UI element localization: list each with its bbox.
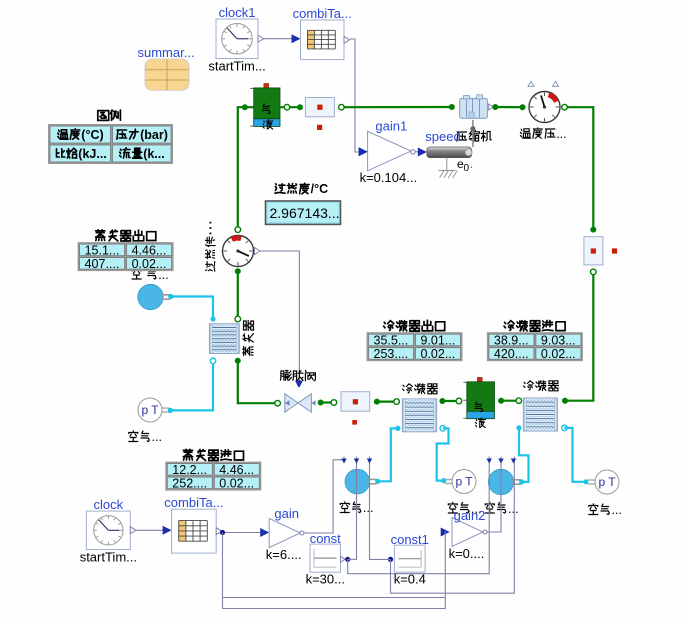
- wire tank1 to valvebox1: [280, 106, 300, 108]
- wire fan2 to hx1: [378, 428, 398, 481]
- svg-text:k=6....: k=6....: [266, 547, 302, 562]
- table summary: [145, 59, 189, 90]
- svg-text:2.967143...: 2.967143...: [270, 205, 340, 221]
- wire gauge2 to evaporator: [237, 271, 239, 319]
- svg-text:252....: 252....: [172, 477, 207, 491]
- gain1 out circle: [411, 150, 415, 154]
- superheat value box: [266, 201, 341, 224]
- svg-text:p T: p T: [455, 475, 473, 489]
- compressor U1: [460, 98, 488, 118]
- svg-text:(kJ...: (kJ...: [78, 147, 107, 161]
- red mark box3: [352, 420, 357, 425]
- svg-text:/°C: /°C: [311, 182, 329, 196]
- label expansion valve: [280, 371, 291, 381]
- wire evap to valve: [238, 361, 278, 403]
- svg-text:...: ...: [556, 127, 566, 141]
- wire hx2 to pT3: [562, 425, 568, 431]
- wire tank1 left stub: [245, 106, 254, 108]
- wire box2 to hx2: [565, 272, 593, 401]
- svg-text:0.02...: 0.02...: [132, 257, 167, 271]
- red mark box1: [317, 125, 322, 130]
- svg-text:p T: p T: [141, 403, 159, 417]
- sensor box2: [584, 237, 603, 265]
- label gauge1: [520, 129, 530, 138]
- wire gauge2 output to valve: [255, 248, 261, 255]
- svg-text:k=0....: k=0....: [449, 546, 485, 561]
- legend table: [98, 111, 109, 121]
- svg-text:0.02...: 0.02...: [421, 347, 456, 361]
- wire gauge1 to box2: [565, 107, 594, 229]
- svg-text:k=0.4: k=0.4: [394, 572, 426, 587]
- gauge pressure-temperature: [529, 92, 560, 123]
- wire combiTable2 to gain2: [223, 532, 446, 609]
- svg-text:combiTa...: combiTa...: [293, 6, 352, 21]
- wire box3 to hx1: [377, 401, 397, 403]
- wire const to fan2 mid: [348, 457, 357, 560]
- port evap tr: [235, 316, 241, 322]
- svg-text:(°C): (°C): [81, 128, 103, 142]
- wire const to fan3 left: [348, 457, 490, 574]
- svg-text:speed: speed: [425, 129, 460, 144]
- svg-text:const1: const1: [391, 532, 429, 547]
- svg-text:...: ...: [612, 503, 622, 517]
- shaft speed to compressor: [472, 120, 474, 147]
- svg-text:35.5...: 35.5...: [374, 334, 409, 348]
- svg-text:0: 0: [464, 163, 470, 174]
- svg-text:4.46...: 4.46...: [219, 463, 254, 477]
- condenser HX2: [523, 398, 557, 431]
- svg-text:0.02...: 0.02...: [541, 347, 576, 361]
- svg-text:p T: p T: [598, 475, 616, 489]
- wire valve to box3: [321, 401, 334, 403]
- svg-text:.: .: [470, 159, 473, 171]
- wire box1 to compressor: [344, 106, 452, 108]
- svg-text:407....: 407....: [85, 257, 120, 271]
- fan fan3: [488, 469, 513, 494]
- label tank2 gas: [475, 402, 483, 412]
- svg-text:...: ...: [508, 502, 518, 516]
- svg-text:253....: 253....: [374, 347, 409, 361]
- label tank1 gas: [263, 104, 271, 114]
- label pT1 air: [129, 431, 138, 442]
- wire gauge2 to tank1: [238, 107, 245, 230]
- evaporator HX: [209, 324, 239, 354]
- label tank1 liquid: [263, 120, 273, 130]
- wire fan1 to evaporator: [171, 297, 213, 320]
- sensor box3: [341, 392, 370, 412]
- valve control arrow: [295, 381, 302, 388]
- wire gain to fan2 left: [304, 457, 344, 534]
- svg-text:combiTa...: combiTa...: [164, 495, 223, 510]
- table evaporator outlet: [96, 230, 105, 241]
- table evaporator inlet: [183, 449, 192, 460]
- port gauge2 top: [235, 227, 241, 233]
- const out triangle: [341, 556, 346, 562]
- svg-text:0.02...: 0.02...: [219, 477, 254, 491]
- junction const1: [388, 557, 393, 562]
- wire hx2 to fan3: [516, 425, 521, 430]
- svg-text:k=30...: k=30...: [306, 572, 345, 587]
- separator tank1: [264, 83, 269, 88]
- const const: [310, 544, 341, 572]
- wire pT1 to evap: [170, 364, 213, 411]
- wire hx1 to pT2: [440, 426, 446, 432]
- label pT3 air: [589, 504, 598, 515]
- port valve left: [275, 400, 281, 406]
- sensor pT2: [452, 470, 476, 494]
- gain gain1: [368, 131, 411, 171]
- sensor pT1: [138, 398, 162, 422]
- label fan2 air: [340, 502, 349, 513]
- label tank2 liquid: [476, 418, 486, 428]
- table condenser outlet: [384, 321, 394, 331]
- svg-text:420....: 420....: [494, 347, 529, 361]
- wire clock1 to combiTable1: [264, 38, 296, 40]
- svg-text:const: const: [310, 531, 341, 546]
- svg-text:15.1...: 15.1...: [85, 244, 120, 258]
- gain gain2: [452, 518, 483, 547]
- svg-text:k=0.104...: k=0.104...: [360, 170, 417, 185]
- svg-text:gain2: gain2: [454, 508, 486, 523]
- wire hx1 to tank2: [442, 400, 459, 402]
- wire compressor to gauge1: [489, 104, 494, 110]
- clock clock1: [216, 19, 258, 59]
- label fan1 air: [132, 268, 141, 279]
- svg-text:4.46...: 4.46...: [132, 244, 167, 258]
- wire gain1 to speed: [415, 151, 419, 153]
- table combiTable1: [301, 20, 345, 60]
- svg-text:9.01...: 9.01...: [421, 334, 456, 348]
- condenser HX1: [402, 399, 436, 432]
- label evaporator: [243, 347, 253, 356]
- svg-text:gain1: gain1: [375, 119, 407, 134]
- svg-text:12.2...: 12.2...: [172, 463, 207, 477]
- junction combiTable2: [220, 530, 225, 535]
- label compressor: [457, 132, 467, 141]
- gauge superheat sensor: [223, 236, 254, 267]
- svg-text:startTim...: startTim...: [208, 58, 265, 73]
- label superheat sensor: [206, 261, 215, 271]
- svg-text:38.9...: 38.9...: [494, 334, 529, 348]
- label fan3 air: [485, 502, 494, 513]
- gain gain: [269, 518, 300, 547]
- svg-text:...: ...: [152, 430, 162, 444]
- fan fan1: [138, 284, 163, 309]
- ground: [446, 158, 448, 171]
- svg-text:summar...: summar...: [138, 45, 195, 60]
- wire const1 to fan3 right: [391, 457, 515, 594]
- const const1: [394, 545, 425, 572]
- port evap bl: [210, 358, 216, 364]
- expansion valve V1: [285, 394, 298, 412]
- table combiTable2: [172, 509, 217, 553]
- label condenser1: [403, 384, 413, 393]
- svg-text:clock: clock: [94, 497, 124, 512]
- wire combiTable2 out: [222, 532, 260, 534]
- table condenser inlet: [504, 321, 514, 331]
- wire const1 to fan2 right: [370, 457, 391, 560]
- clock clock2: [86, 511, 130, 549]
- svg-text:gain: gain: [274, 506, 299, 521]
- separator tank2: [477, 377, 482, 382]
- gain2 in arrow: [441, 528, 450, 537]
- gain gain out circle: [300, 531, 304, 535]
- gain1 in arrow: [359, 147, 368, 156]
- svg-text:(bar): (bar): [140, 128, 168, 142]
- wire combiTable1 to gain1: [350, 39, 358, 152]
- svg-text:startTim...: startTim...: [80, 549, 137, 564]
- gain2 out circle: [483, 530, 487, 534]
- wire gain2 to fan3 mid: [487, 457, 501, 533]
- svg-text:9.03...: 9.03...: [541, 334, 576, 348]
- fan fan2: [345, 469, 370, 494]
- wire clock2 to combiTable2: [136, 529, 163, 531]
- wire tank2 to hx2: [501, 400, 517, 402]
- junction const: [345, 557, 350, 562]
- label pT2 air: [448, 502, 457, 513]
- svg-text:...: ...: [363, 501, 373, 515]
- red mark box2: [612, 248, 617, 253]
- svg-text:(k...: (k...: [143, 147, 165, 161]
- svg-text:clock1: clock1: [219, 5, 256, 20]
- label condenser2: [524, 381, 534, 390]
- sensor box1: [305, 98, 334, 117]
- sensor pT3: [595, 470, 619, 494]
- label superheat title: [275, 184, 285, 193]
